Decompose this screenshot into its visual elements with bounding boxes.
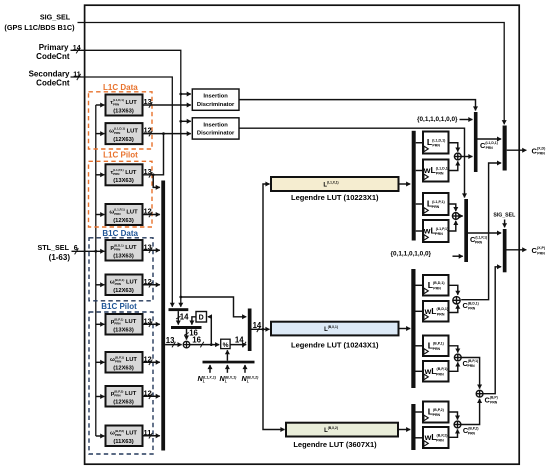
svg-text:16: 16: [192, 336, 201, 345]
svg-text:SIG_SEL: SIG_SEL: [493, 212, 516, 218]
svg-text:(12X63): (12X63): [113, 218, 134, 224]
wire reg wL(L1,D,1) to xor X1: [449, 161, 458, 170]
svg-text:ωPRN(B,P,1) LUT: ωPRN(B,P,1) LUT: [110, 355, 137, 363]
bus C(L1,D,1) combiner bar: [474, 112, 478, 172]
wire reg wL(L1,P,1) to xor X2: [449, 221, 456, 231]
LUT omega(B,P,2) box: [106, 426, 143, 447]
xor X2 L1C pilot: [452, 213, 459, 220]
xor X4 B1C pilot primary: [454, 354, 461, 361]
svg-text:C(X,P)PRN: C(X,P)PRN: [532, 246, 546, 255]
svg-text:ωPRN(B,P,2) LUT: ωPRN(B,P,2) LUT: [110, 429, 137, 437]
wire SIG_SEL top: [78, 23, 505, 125]
register L(B,P,1): [423, 336, 449, 357]
svg-text:NL(L1,X,1): NL(L1,X,1): [198, 374, 217, 383]
wire p(B,P,2) output 12: [143, 395, 160, 397]
LUT tau(L1,D,1) box: [106, 95, 143, 116]
wire reg wL(B,D,1) to xor X3: [449, 305, 458, 313]
svg-text:SIG_SEL: SIG_SEL: [40, 13, 71, 22]
adder xor circle: [183, 341, 190, 348]
wire ID2 output to C(L1,P,1) combiner: [239, 128, 465, 197]
wire mux2 output: [507, 249, 527, 251]
xor X5 B1C pilot combine: [476, 390, 483, 397]
svg-text:14: 14: [253, 321, 262, 330]
svg-text:Secondary: Secondary: [29, 69, 70, 78]
wire xor X3 riser to output mux 1: [461, 163, 501, 300]
wire M1 to M2 with 14: [177, 311, 179, 325]
svg-text:(1-63): (1-63): [49, 253, 71, 262]
wire STL_SEL distribution vertical: [95, 105, 97, 436]
wire xor X5 riser to output mux 2: [483, 267, 501, 394]
mux address-select bar: [248, 309, 252, 352]
register wL(L1,D,1): [423, 160, 450, 182]
svg-text:Discriminator: Discriminator: [197, 131, 235, 137]
mux output select 1: [503, 126, 507, 171]
svg-text:Primary: Primary: [39, 43, 69, 52]
wire adder output 16 to modulo: [190, 344, 219, 346]
svg-text:C(B,P)PRN: C(B,P)PRN: [485, 395, 498, 404]
svg-text:Legendre LUT (3607X1): Legendre LUT (3607X1): [293, 440, 377, 449]
bus NL length bar: [203, 361, 255, 364]
wire address vertical to LUT1: [263, 184, 270, 329]
svg-text:Legendre LUT (10223X1): Legendre LUT (10223X1): [291, 193, 379, 202]
outer box: [85, 5, 520, 464]
LUT p(B,P,2) box: [106, 386, 143, 407]
register wL(L1,P,1): [423, 220, 449, 242]
op-amp U1 Insertion Discriminator 1: [192, 89, 239, 110]
svg-text:(12X63): (12X63): [113, 137, 134, 143]
svg-text:L1C Pilot: L1C Pilot: [103, 150, 138, 159]
wire modulo output 14 to address bus: [230, 344, 246, 346]
bus B1C Legendre distribution bar: [411, 269, 415, 388]
svg-text:L1C Data: L1C Data: [103, 83, 138, 92]
svg-text:Insertion: Insertion: [203, 122, 228, 128]
wire tau(L1,P,1) output 13 riser to ID2 net: [143, 134, 164, 175]
svg-text:C(B,P,2)PRN: C(B,P,2)PRN: [463, 426, 479, 435]
memory Legendre LUT1 (10223X1): [271, 177, 399, 202]
register L(L1,P,1): [423, 193, 449, 215]
svg-text:13: 13: [166, 336, 175, 345]
wire C(L1,P,1) to output mux 2: [468, 232, 501, 234]
svg-text:{0,1,1,0,1,0,0}: {0,1,1,0,1,0,0}: [391, 250, 432, 257]
svg-text:C(L1,P,1)PRN: C(L1,P,1)PRN: [470, 235, 487, 244]
svg-text:pPRN(B,D,1) LUT: pPRN(B,D,1) LUT: [110, 243, 137, 251]
wire LUT select stubs: [96, 105, 105, 436]
svg-text:STL_SEL: STL_SEL: [37, 243, 69, 252]
wire reg L(L1,D,1) to xor X1: [449, 143, 458, 152]
wire D input riser from adder output: [208, 317, 211, 345]
xor X3 B1C data: [453, 297, 460, 304]
wire reg wL(B,P,1) to xor X4: [449, 362, 458, 371]
wire address bus output 14 to Legendre LUTs: [252, 328, 270, 330]
svg-text:C(L1,D,1)PRN: C(L1,D,1)PRN: [480, 141, 498, 150]
svg-text:CodeCnt: CodeCnt: [36, 79, 70, 88]
register wL(B,D,1): [423, 301, 449, 322]
wire reg L(B,P,1) to xor X4: [449, 346, 458, 353]
wire xor X6 to xor X5: [461, 399, 480, 425]
memory Legendre LUT3 (3607X1): [286, 423, 398, 449]
wire stubs to B1C secondary registers: [416, 412, 424, 438]
wire stubs to L1C registers: [416, 143, 423, 231]
wire omega(B,D,1) output 12: [143, 284, 160, 286]
svg-text:(12X63): (12X63): [113, 400, 134, 406]
LUT omega(L1,D,1) box: [106, 123, 143, 144]
op-amp U2 Insertion Discriminator 2: [192, 118, 239, 139]
svg-text:(13X63): (13X63): [113, 254, 134, 260]
svg-text:B1C Pilot: B1C Pilot: [101, 302, 137, 311]
wire xor X1 to C(L1,D,1) bar: [461, 156, 472, 158]
wire mux1 output: [507, 149, 527, 151]
wire reg wL(B,P,2) to xor X6: [449, 429, 458, 437]
wire LUT3 output to B1C secondary register bus: [398, 429, 410, 431]
wire primary bypass to address bus: [181, 297, 246, 317]
modulo % box: [221, 339, 230, 349]
wire NL to modulo: [226, 350, 228, 361]
svg-text:τPRN(L1,P,1) LUT: τPRN(L1,P,1) LUT: [111, 168, 137, 176]
bus L1C Legendre distribution bar: [412, 131, 416, 241]
svg-text:CodeCnt: CodeCnt: [36, 52, 70, 61]
wire stubs to B1C registers: [416, 285, 424, 371]
wire LUT2 output to B1C register bus: [399, 328, 411, 330]
wire M2 to adder with 16: [186, 329, 188, 340]
svg-text:ωPRN(B,D,1) LUT: ωPRN(B,D,1) LUT: [110, 278, 138, 286]
wire p(B,P,1) output 13: [143, 323, 160, 325]
svg-text:(13X63): (13X63): [113, 328, 134, 334]
svg-text:D: D: [199, 315, 204, 322]
LUT p(B,D,1) box: [106, 240, 143, 261]
wire omega(B,P,2) output 11: [143, 435, 160, 437]
wire address vertical to LUT3: [263, 329, 285, 429]
svg-text:{0,1,1,0,1,0,0}: {0,1,1,0,1,0,0}: [417, 116, 458, 123]
wire xor X2 to C(L1,P,1) bar: [459, 215, 463, 217]
LUT omega(B,P,1) box: [106, 352, 143, 373]
svg-text:(11X63): (11X63): [113, 439, 133, 445]
wire tau(L1,D,1) output 13 to ID1: [143, 104, 191, 106]
wire Primary stub to ID1: [181, 93, 191, 95]
register wL(B,P,2): [423, 427, 449, 448]
wire omega(L1,P,1) output 12: [143, 214, 160, 216]
svg-text:pPRN(B,P,2) LUT: pPRN(B,P,2) LUT: [111, 389, 137, 397]
svg-text:14: 14: [180, 313, 189, 322]
LUT p(B,P,1) box: [106, 314, 143, 335]
wire tau(L1,P,1) drop into code bus: [153, 175, 160, 188]
svg-text:(13X63): (13X63): [113, 108, 134, 114]
svg-text:(12X63): (12X63): [113, 288, 134, 294]
memory Legendre LUT2 (10243X1): [271, 322, 399, 350]
wire bus 13 into adder: [165, 344, 182, 346]
wire STL_SEL: [72, 250, 105, 252]
mux M2 load-select bar: [171, 326, 202, 329]
bus code-parameter vertical bar: [161, 181, 165, 451]
wire reg L(B,P,2) to xor X6: [449, 412, 458, 420]
svg-text:C(X,D)PRN: C(X,D)PRN: [532, 146, 547, 155]
register wL(B,P,1): [423, 361, 449, 382]
wire C(L1,D,1) to output mux: [478, 138, 502, 140]
wire Secondary CodeCnt: [71, 77, 173, 307]
svg-text:Discriminator: Discriminator: [197, 102, 235, 108]
wire Primary stub to ID2: [181, 120, 191, 122]
svg-text:NL(B,X,1): NL(B,X,1): [220, 374, 238, 383]
svg-text:(12X63): (12X63): [113, 366, 134, 372]
LUT omega(L1,P,1) box: [106, 204, 143, 225]
svg-text:(13X63): (13X63): [113, 178, 134, 184]
svg-text:B1C Data: B1C Data: [102, 229, 138, 238]
svg-text:%: %: [223, 342, 229, 349]
wire NL input arrows: [210, 365, 245, 373]
wire reg L(B,D,1) to xor X3: [449, 285, 458, 295]
svg-text:Legendre LUT (10243X1): Legendre LUT (10243X1): [291, 340, 379, 349]
LUT omega(B,D,1) box: [106, 275, 143, 296]
svg-text:C(B,P,1)PRN: C(B,P,1)PRN: [463, 359, 479, 368]
wire D output feedback into M2: [192, 317, 196, 325]
svg-text:C(B,D,1)PRN: C(B,D,1)PRN: [463, 301, 479, 310]
xor X6 B1C pilot secondary: [454, 421, 461, 428]
svg-text:pPRN(B,P,1) LUT: pPRN(B,P,1) LUT: [111, 317, 137, 325]
wire LUT1 output to L1C register bus: [399, 183, 411, 185]
register L(L1,D,1): [423, 132, 449, 154]
svg-text:(GPS L1C/BDS B1C): (GPS L1C/BDS B1C): [4, 23, 75, 32]
wire omega(B,P,1) output 12: [143, 361, 160, 363]
wire p(B,D,1) output 13: [143, 249, 160, 251]
svg-text:11: 11: [144, 428, 152, 437]
svg-text:τPRN(L1,D,1) LUT: τPRN(L1,D,1) LUT: [110, 98, 137, 106]
wire omega(L1,D,1) output 12 to ID2: [143, 133, 191, 135]
bus B1C secondary distribution bar: [411, 404, 415, 450]
wire reg L(L1,P,1) to xor X2: [449, 204, 456, 211]
wire xor X4 to xor X5: [461, 358, 479, 389]
wire ID1 output to C(L1,D,1) combiner: [239, 100, 476, 111]
LUT tau(L1,P,1) box: [106, 164, 143, 185]
wire Primary CodeCnt: [71, 50, 181, 307]
flip-flop D accumulator: [196, 312, 207, 323]
svg-text:NL(B,X,2): NL(B,X,2): [242, 374, 260, 383]
register L(B,P,2): [423, 402, 449, 423]
bus C(L1,P,1) combiner bar: [464, 199, 468, 262]
svg-text:14: 14: [235, 336, 244, 345]
xor X1 L1C data: [454, 153, 461, 160]
mux output select 2: [503, 229, 507, 272]
mux M1 count-select bar: [169, 308, 189, 311]
register L(B,D,1): [423, 275, 449, 296]
svg-text:Insertion: Insertion: [203, 94, 228, 100]
